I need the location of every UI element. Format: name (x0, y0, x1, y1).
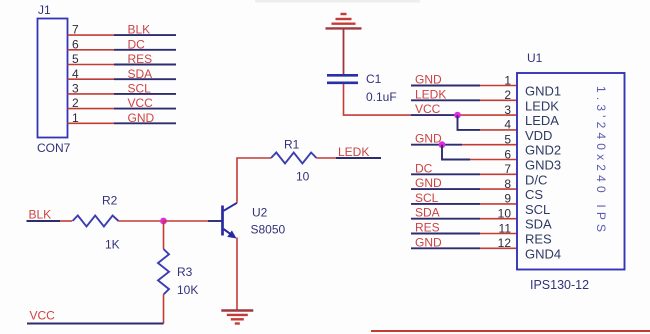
page rule line (bottom right) (371, 330, 650, 332)
wire BLK to R2 (27, 220, 73, 222)
svg-text:5: 5 (504, 133, 511, 147)
emitter lead (224, 229, 234, 236)
wire node to base (164, 220, 209, 222)
collector lead (224, 203, 238, 211)
resistor R1 (271, 153, 317, 164)
svg-text:GND: GND (415, 73, 442, 87)
svg-text:RES: RES (128, 52, 153, 66)
svg-text:10: 10 (498, 207, 512, 221)
svg-text:3: 3 (504, 103, 511, 117)
J1 pin 4 wire (68, 78, 177, 80)
capacitor C1 (327, 75, 358, 83)
svg-text:U2: U2 (252, 206, 268, 220)
svg-text:GND: GND (415, 176, 442, 190)
svg-text:10: 10 (296, 170, 310, 184)
svg-text:2: 2 (504, 88, 511, 102)
wire ground to C1 (343, 29, 345, 74)
svg-text:7: 7 (504, 162, 511, 176)
svg-text:SCL: SCL (525, 202, 550, 217)
wire GND jog to pin 6 (442, 145, 517, 160)
svg-text:6: 6 (72, 37, 79, 51)
svg-text:BLK: BLK (29, 208, 52, 222)
J1 pin 7 wire (68, 34, 177, 36)
svg-text:SDA: SDA (525, 217, 552, 232)
IC U1 (517, 51, 625, 292)
svg-text:VCC: VCC (128, 96, 154, 110)
J1 pin 6 wire (68, 49, 177, 51)
wire VCC jog to pin 4 (458, 115, 518, 130)
cropped heading smudge (255, 0, 420, 3)
svg-text:SDA: SDA (128, 67, 153, 81)
svg-text:10K: 10K (177, 283, 198, 297)
ground (emitter) (221, 311, 253, 324)
svg-text:VDD: VDD (525, 128, 552, 143)
svg-text:0.1uF: 0.1uF (366, 90, 397, 104)
U1 pin 2 stub (411, 99, 517, 101)
U1 pin names (525, 84, 561, 262)
connector J1 (37, 3, 71, 155)
svg-text:GND: GND (415, 132, 442, 146)
svg-text:2: 2 (72, 96, 79, 110)
svg-text:VCC: VCC (30, 309, 56, 323)
svg-text:4: 4 (72, 67, 79, 81)
svg-text:DC: DC (415, 161, 433, 175)
svg-text:GND4: GND4 (525, 246, 561, 261)
U1 pin 10 stub (411, 218, 517, 220)
J1 pin 5 wire (68, 64, 177, 66)
wire R2 to node (119, 220, 164, 222)
wire R3 to VCC rail (163, 295, 165, 324)
C1 value labels (366, 72, 397, 104)
svg-text:SCL: SCL (128, 82, 152, 96)
svg-text:7: 7 (72, 23, 79, 37)
base lead (208, 220, 223, 222)
J1 pin 1 wire (68, 122, 177, 124)
svg-text:R2: R2 (102, 194, 118, 208)
svg-text:GND3: GND3 (525, 158, 561, 173)
svg-text:SDA: SDA (415, 206, 440, 220)
wire collector up (237, 158, 271, 203)
svg-text:RES: RES (525, 232, 552, 247)
resistor R2 (73, 216, 119, 227)
svg-text:GND: GND (128, 111, 155, 125)
junction node VCC (454, 112, 461, 119)
svg-text:LEDA: LEDA (525, 113, 559, 128)
junction node base (160, 218, 167, 225)
U1 pin 12 stub (411, 247, 517, 249)
svg-text:GND1: GND1 (525, 84, 561, 99)
emitter arrow (227, 230, 236, 238)
svg-text:8: 8 (504, 177, 511, 191)
svg-text:4: 4 (504, 118, 511, 132)
svg-text:R1: R1 (284, 138, 300, 152)
U1 pin 5 stub (411, 144, 517, 146)
U1 pin 9 stub (411, 203, 517, 205)
wire C1 to VCC node (344, 84, 518, 115)
U1 pin 11 stub (411, 233, 517, 235)
svg-text:1K: 1K (105, 238, 120, 252)
svg-text:U1: U1 (527, 51, 543, 65)
svg-text:DC: DC (128, 37, 146, 51)
svg-text:LEDK: LEDK (525, 98, 559, 113)
U1 pin 8 stub (411, 188, 517, 190)
J1 pin 2 wire (68, 108, 177, 110)
svg-text:S8050: S8050 (251, 223, 286, 237)
svg-text:CON7: CON7 (37, 141, 71, 155)
svg-text:GND2: GND2 (525, 143, 561, 158)
svg-text:LEDK: LEDK (415, 87, 446, 101)
svg-text:VCC: VCC (415, 102, 441, 116)
svg-text:D/C: D/C (525, 172, 547, 187)
wire VCC rail (27, 323, 164, 325)
svg-text:GND: GND (415, 235, 442, 249)
base bar (221, 206, 224, 236)
svg-text:R3: R3 (177, 265, 193, 279)
svg-text:12: 12 (498, 236, 512, 250)
svg-text:CS: CS (525, 187, 543, 202)
U1 pin 1 stub (411, 85, 517, 87)
power ground (top, above C1) (326, 14, 362, 28)
svg-text:11: 11 (499, 221, 512, 235)
wire R1 to LEDK (317, 157, 382, 159)
svg-text:1: 1 (72, 111, 79, 125)
svg-text:BLK: BLK (128, 23, 151, 37)
svg-text:6: 6 (504, 147, 511, 161)
svg-text:IPS130-12: IPS130-12 (530, 278, 589, 292)
junction node GND (439, 141, 446, 148)
svg-text:5: 5 (72, 52, 79, 66)
svg-text:9: 9 (504, 192, 511, 206)
svg-text:LEDK: LEDK (338, 145, 369, 159)
wire emitter down (236, 238, 238, 310)
svg-text:SCL: SCL (415, 191, 439, 205)
J1 pin 3 wire (68, 93, 177, 95)
svg-text:1: 1 (504, 73, 511, 87)
transistor U2 (208, 203, 237, 239)
svg-text:3: 3 (72, 82, 79, 96)
U1 pin 7 stub (411, 173, 517, 175)
resistor R3 (158, 249, 169, 295)
svg-text:C1: C1 (366, 72, 382, 86)
svg-text:J1: J1 (38, 3, 51, 17)
wire node down to R3 (163, 221, 165, 249)
U1 pin numbers (498, 73, 512, 250)
svg-text:RES: RES (415, 221, 440, 235)
